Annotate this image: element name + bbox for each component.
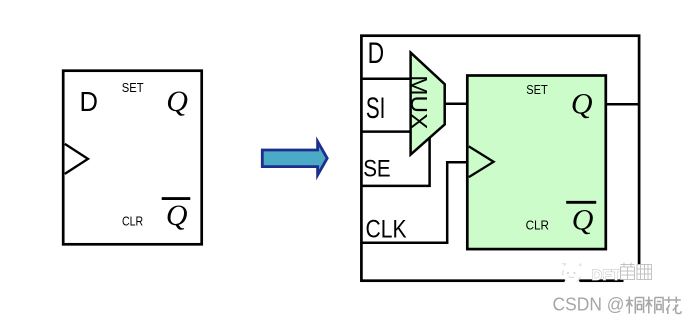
wire SI to MUX [361,130,411,133]
svg-text:Q: Q [571,87,593,120]
flip-flop U1 (plain D flip-flop, left) [63,71,202,245]
arrow (transformation, blue block arrow) [262,142,327,176]
overbar of Qbar (U1) [162,197,191,200]
mux U2 (trapezoid) [411,53,445,155]
svg-text:SET: SET [526,82,548,97]
svg-text:SE: SE [363,155,391,182]
svg-text:SET: SET [122,80,144,95]
overbar of Qbar (U3) [566,201,596,204]
svg-text:CLR: CLR [122,213,143,228]
svg-text:Q: Q [166,199,188,232]
svg-text:Q: Q [166,85,188,118]
svg-text:CLK: CLK [366,216,407,244]
svg-text:MUX: MUX [406,75,432,129]
watermark glyph meng (simplified) [621,263,635,280]
wire SE to MUX select [361,137,430,186]
svg-text:CSDN @: CSDN @ [553,293,625,314]
clock triangle (U1) [65,144,88,174]
svg-text:SI: SI [366,92,386,125]
svg-text:D: D [80,86,99,117]
watermark glyph tong 2 (simplified 桐) [645,297,663,314]
clock triangle (U3) [469,146,494,177]
flip-flop U3 (scan D flip-flop, green) [467,76,606,250]
watermark icon (small badge) [562,263,582,287]
wire MUX output to flip-flop D input [445,103,468,106]
svg-text:D: D [368,37,385,70]
svg-text:Q: Q [572,204,594,237]
watermark glyph xin (simplified) [637,265,652,280]
watermark eraser patch [624,265,657,285]
watermark glyph tong 1 (simplified 桐) [626,297,644,314]
svg-text:DFT: DFT [592,267,621,284]
wire Q output to boundary [606,103,640,106]
watermark glyph hua (simplified 花) [664,297,681,315]
svg-text:CLR: CLR [526,217,549,232]
wire CLK to flip-flop clock pin [361,162,468,243]
outer box (scan flip-flop boundary) [361,36,639,281]
wire D to MUX [361,77,411,80]
